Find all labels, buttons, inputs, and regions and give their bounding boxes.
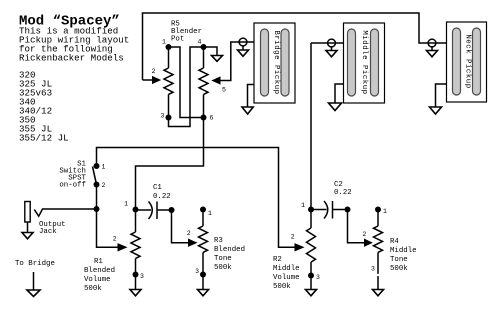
svg-text:Blended: Blended: [214, 246, 245, 254]
svg-text:2: 2: [187, 230, 191, 237]
svg-text:R3: R3: [214, 237, 223, 245]
svg-text:500k: 500k: [84, 285, 102, 293]
svg-text:R1: R1: [94, 258, 103, 266]
svg-text:2: 2: [102, 182, 106, 189]
svg-text:Middle Pickup: Middle Pickup: [360, 30, 368, 94]
svg-text:1: 1: [102, 164, 106, 171]
svg-text:500k: 500k: [214, 264, 232, 272]
svg-text:Volume: Volume: [273, 274, 300, 282]
svg-text:Middle: Middle: [390, 247, 417, 255]
svg-text:1: 1: [208, 210, 212, 217]
svg-text:R2: R2: [273, 256, 282, 264]
svg-text:3: 3: [316, 274, 320, 281]
svg-text:Tone: Tone: [390, 256, 408, 264]
svg-text:Neck Pickup: Neck Pickup: [463, 34, 471, 88]
svg-text:1: 1: [124, 201, 128, 208]
svg-text:C1: C1: [153, 184, 162, 192]
svg-text:1: 1: [162, 39, 166, 46]
svg-text:2: 2: [362, 231, 366, 238]
svg-text:Bridge Pickup: Bridge Pickup: [272, 30, 280, 94]
svg-text:1: 1: [301, 202, 305, 209]
svg-text:3: 3: [195, 268, 199, 275]
svg-text:3: 3: [161, 113, 165, 120]
svg-text:Middle: Middle: [273, 265, 300, 273]
svg-text:Pot: Pot: [171, 36, 184, 44]
svg-text:C2: C2: [334, 181, 343, 189]
svg-text:4: 4: [198, 39, 202, 46]
svg-text:2: 2: [113, 235, 117, 242]
svg-text:2: 2: [152, 68, 156, 75]
svg-text:To Bridge: To Bridge: [15, 260, 55, 268]
svg-text:5: 5: [222, 87, 226, 94]
svg-text:3: 3: [140, 273, 144, 280]
svg-text:0.22: 0.22: [334, 189, 352, 197]
svg-text:500k: 500k: [390, 265, 408, 273]
svg-text:500k: 500k: [273, 283, 291, 291]
svg-text:Volume: Volume: [84, 276, 111, 284]
svg-text:Tone: Tone: [214, 255, 232, 263]
svg-text:0.22: 0.22: [153, 193, 171, 201]
svg-text:on-off: on-off: [59, 182, 86, 190]
svg-text:2: 2: [291, 234, 295, 241]
svg-text:355/12 JL: 355/12 JL: [19, 133, 69, 144]
svg-text:Rickenbacker Models: Rickenbacker Models: [19, 53, 124, 64]
svg-text:1: 1: [383, 208, 387, 215]
svg-text:Blended: Blended: [84, 267, 115, 275]
svg-text:6: 6: [210, 115, 214, 122]
svg-text:R4: R4: [390, 238, 399, 246]
svg-text:Jack: Jack: [39, 228, 57, 236]
svg-text:3: 3: [371, 266, 375, 273]
